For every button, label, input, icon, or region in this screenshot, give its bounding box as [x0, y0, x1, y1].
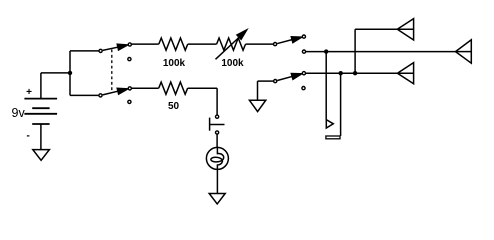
svg-text:100k: 100k: [221, 58, 244, 69]
svg-text:100k: 100k: [163, 58, 186, 69]
svg-text:-: -: [27, 130, 30, 141]
svg-text:+: +: [26, 87, 32, 98]
svg-text:50: 50: [168, 101, 180, 112]
svg-text:9v: 9v: [12, 106, 26, 120]
